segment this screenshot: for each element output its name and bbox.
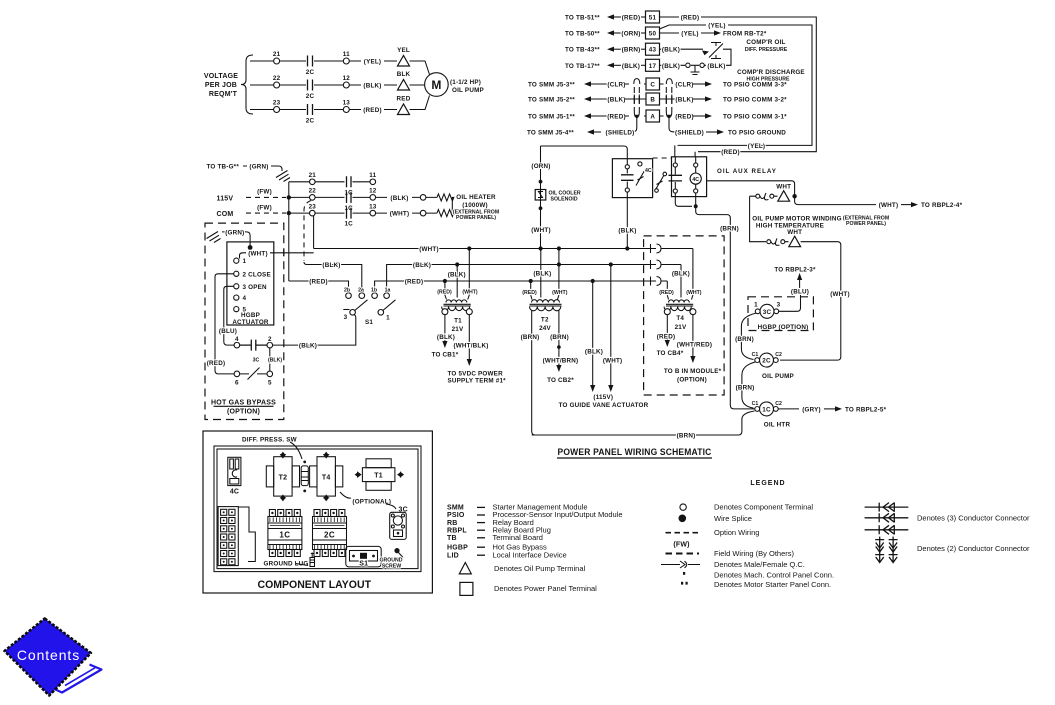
motor M oil pump	[425, 73, 484, 97]
svg-text:C1: C1	[752, 352, 759, 358]
terminal HGBP 2b	[267, 336, 273, 348]
connector: 3 conductor row 1	[865, 503, 909, 512]
node: optional label	[340, 492, 408, 514]
svg-text:(RED): (RED)	[659, 290, 674, 296]
svg-text:22: 22	[309, 188, 317, 195]
svg-text:T4: T4	[676, 315, 684, 322]
decorative contents button	[5, 619, 102, 696]
transformer T1	[442, 300, 473, 333]
terminal HGBP 6	[234, 371, 240, 386]
svg-text:(FW): (FW)	[257, 189, 272, 196]
node: TO TB-50 row	[565, 30, 646, 37]
wire: BLK bus left	[304, 262, 362, 293]
svg-text:(GRN): (GRN)	[225, 229, 244, 236]
wire: top link to relay	[541, 146, 628, 159]
field wiring legend symbol	[666, 542, 795, 558]
node: COM field wiring	[217, 205, 291, 219]
wire: HGBP BLK riser to S1	[273, 315, 356, 346]
option box: HGBP contactor	[0, 0, 1, 1]
svg-text:M: M	[431, 78, 441, 92]
svg-text:(BLK): (BLK)	[448, 271, 466, 278]
svg-text:TO SMM J5-4**: TO SMM J5-4**	[527, 130, 574, 137]
svg-text:(YEL): (YEL)	[681, 31, 698, 38]
oil pump terminal BLK	[397, 71, 411, 90]
svg-text:(BLK): (BLK)	[299, 343, 317, 350]
wire: 2 to 5 (BLK)	[253, 348, 283, 371]
wire: relay box to WHT bus (BLK)	[618, 198, 636, 251]
svg-text:Denotes (3) Conductor Connecto: Denotes (3) Conductor Connector	[917, 513, 1030, 522]
component terminal heater bottom	[420, 210, 426, 216]
svg-text:T4: T4	[322, 475, 331, 482]
wire splice legend symbol	[679, 514, 752, 523]
svg-text:(RED): (RED)	[522, 290, 537, 296]
svg-text:Denotes Mach. Control Panel Co: Denotes Mach. Control Panel Conn.	[714, 570, 834, 579]
svg-text:(SHIELD): (SHIELD)	[606, 130, 635, 137]
contactor 1C layout icon	[268, 510, 302, 557]
svg-text:TO PSIO GROUND: TO PSIO GROUND	[728, 130, 786, 137]
node: schematic title	[557, 447, 712, 458]
svg-text:COMPONENT LAYOUT: COMPONENT LAYOUT	[258, 579, 372, 591]
svg-text:(BLK): (BLK)	[607, 97, 625, 104]
svg-text:(BLK): (BLK)	[413, 262, 431, 269]
svg-text:(115V): (115V)	[593, 394, 613, 401]
solenoid: oil cooler solenoid	[535, 190, 581, 203]
svg-text:C2: C2	[775, 352, 782, 358]
svg-text:(RED): (RED)	[405, 279, 424, 286]
svg-text:22: 22	[273, 75, 281, 82]
svg-text:1C: 1C	[344, 205, 353, 212]
svg-text:2C: 2C	[306, 93, 315, 100]
wire: actuator WHT lead	[240, 249, 314, 258]
svg-text:(RED): (RED)	[681, 15, 700, 22]
svg-text:DIFF. PRESSURE: DIFF. PRESSURE	[745, 47, 788, 53]
svg-text:TO PSIO COMM 3-3*: TO PSIO COMM 3-3*	[723, 82, 787, 89]
wire: WHT bus	[314, 246, 651, 253]
svg-text:VOLTAGE: VOLTAGE	[204, 73, 238, 80]
svg-text:(RED): (RED)	[675, 114, 694, 121]
terminal board layout icon	[218, 507, 255, 566]
svg-text:(YEL): (YEL)	[748, 143, 765, 150]
svg-text:SOLENOID: SOLENOID	[551, 196, 578, 202]
svg-text:PSIO: PSIO	[447, 512, 465, 519]
option box: T4	[644, 236, 725, 395]
svg-text:T1: T1	[374, 473, 383, 480]
node: TO SMM J5-2 row	[528, 96, 646, 103]
svg-text:TO PSIO COMM 3-1*: TO PSIO COMM 3-1*	[723, 114, 787, 121]
svg-text:(BLK): (BLK)	[437, 334, 455, 341]
svg-text:PER JOB: PER JOB	[205, 82, 237, 89]
switch: compressor discharge high pressure	[660, 63, 805, 83]
svg-text:(BLK): (BLK)	[662, 63, 680, 70]
node: legend RBPL	[447, 525, 551, 534]
svg-text:(SHIELD): (SHIELD)	[675, 130, 704, 137]
wire: TO RBPL2-3 arrow	[774, 267, 816, 296]
svg-text:(BRN): (BRN)	[521, 334, 540, 341]
terminal actuator 5	[234, 307, 247, 314]
svg-text:TO 5VDC POWER: TO 5VDC POWER	[448, 370, 504, 377]
svg-text:TO CB2*: TO CB2*	[547, 377, 574, 384]
svg-text:(RED): (RED)	[622, 15, 641, 22]
node: legend RB	[447, 518, 534, 527]
svg-text:1C: 1C	[762, 406, 771, 413]
terminal 13	[343, 107, 349, 113]
svg-text:(BRN): (BRN)	[720, 226, 739, 233]
svg-text:(BLK): (BLK)	[268, 358, 282, 364]
svg-text:POWER PANEL): POWER PANEL)	[456, 215, 496, 221]
relay 4C layout icon	[228, 457, 241, 495]
terminal 12b	[369, 188, 377, 201]
svg-text:OIL PUMP: OIL PUMP	[762, 373, 794, 380]
svg-text:43: 43	[649, 47, 657, 54]
svg-text:2a: 2a	[358, 288, 364, 294]
svg-text:RED: RED	[397, 96, 411, 103]
svg-text:SMM: SMM	[447, 505, 464, 512]
svg-text:A: A	[650, 114, 655, 121]
svg-text:LID: LID	[447, 552, 459, 559]
svg-text:POWER PANEL): POWER PANEL)	[846, 221, 886, 227]
svg-text:YEL: YEL	[397, 47, 410, 54]
wire: RED bus left	[289, 279, 349, 293]
ground symbol TB-G	[276, 171, 290, 182]
svg-text:COM: COM	[217, 211, 234, 218]
svg-text:2C: 2C	[306, 118, 315, 125]
svg-text:DIFF. PRESS. SW: DIFF. PRESS. SW	[242, 437, 297, 444]
svg-text:SCREW: SCREW	[382, 564, 401, 570]
component terminal heater top	[420, 195, 426, 201]
resistor: oil heater element top	[437, 194, 454, 213]
svg-text:2b: 2b	[344, 288, 350, 294]
terminal 22b	[309, 188, 317, 201]
terminal actuator 4	[234, 295, 247, 302]
svg-text:(BLK): (BLK)	[322, 262, 340, 269]
svg-text:11: 11	[343, 51, 350, 58]
node: legend HGBP	[447, 542, 547, 551]
svg-text:RBPL: RBPL	[447, 527, 467, 534]
node: diff press sw label	[242, 437, 302, 460]
svg-text:(1000W): (1000W)	[462, 202, 488, 209]
svg-text:(BRN): (BRN)	[735, 336, 754, 343]
switch S1	[343, 288, 395, 327]
svg-text:(RED): (RED)	[607, 114, 626, 121]
svg-text:TO TB-50**: TO TB-50**	[565, 31, 600, 38]
svg-text:(BLK): (BLK)	[622, 63, 640, 70]
svg-text:(BRN): (BRN)	[736, 384, 755, 391]
terminal 12	[343, 82, 349, 88]
svg-text:(WHT): (WHT)	[248, 250, 268, 257]
svg-text:TO PSIO COMM 3-2*: TO PSIO COMM 3-2*	[723, 97, 787, 104]
switch: compressor oil diff pressure	[709, 39, 788, 65]
svg-text:(BLK): (BLK)	[707, 63, 725, 70]
terminal actuator 1	[234, 258, 247, 265]
svg-text:TO TB-43**: TO TB-43**	[565, 47, 600, 54]
svg-text:12: 12	[343, 75, 351, 82]
power panel terminal A	[646, 110, 660, 122]
terminal HGBP 4	[234, 336, 240, 348]
wire: relay to high temp switch	[707, 181, 795, 196]
svg-text:Wire Splice: Wire Splice	[714, 514, 752, 523]
svg-text:5: 5	[268, 380, 272, 387]
svg-text:23: 23	[273, 100, 281, 107]
contactor coil 1C	[752, 401, 791, 429]
wire: T4 RED to CB4	[657, 315, 684, 357]
terminal actuator 3	[234, 284, 267, 291]
node: voltage per job requirement label	[204, 73, 238, 98]
svg-text:HOT GAS BYPASS: HOT GAS BYPASS	[211, 399, 276, 406]
wire: T1 BLK to CB1	[432, 315, 459, 359]
svg-text:S1: S1	[365, 319, 373, 326]
connector: T4 row2	[651, 260, 682, 269]
svg-text:(OPTION): (OPTION)	[677, 376, 707, 383]
svg-text:(BLK): (BLK)	[390, 195, 408, 202]
ground symbol HGBP	[207, 232, 221, 243]
resistor: oil heater element bottom	[437, 210, 454, 217]
svg-text:Denotes (2) Conductor Connecto: Denotes (2) Conductor Connector	[917, 544, 1030, 553]
oil pump terminal RED	[397, 96, 411, 115]
svg-text:TO CB1*: TO CB1*	[432, 352, 459, 359]
svg-text:HGBP: HGBP	[447, 544, 468, 551]
power panel terminal 17	[646, 59, 660, 71]
wire: BLK bus right	[387, 262, 651, 293]
svg-text:Denotes Component Terminal: Denotes Component Terminal	[714, 503, 813, 512]
svg-text:Local Interface Device: Local Interface Device	[493, 550, 567, 559]
wire: row 22-12 oil heater	[289, 196, 437, 198]
svg-text:50: 50	[649, 31, 657, 38]
terminal actuator 2	[234, 271, 271, 278]
svg-text:TB: TB	[447, 535, 457, 542]
svg-text:(BLK): (BLK)	[672, 270, 690, 277]
svg-text:REQM'T: REQM'T	[209, 91, 238, 98]
node: WHT bus junctions	[467, 246, 561, 250]
svg-text:(WHT): (WHT)	[419, 246, 439, 253]
svg-text:B: B	[650, 97, 655, 104]
wire: guide vane WHT drop	[603, 265, 623, 393]
svg-text:2C: 2C	[762, 358, 771, 365]
connector: 3 conductor row 2	[865, 513, 909, 522]
svg-text:(1-1/2 HP): (1-1/2 HP)	[450, 79, 481, 86]
node: ground screw	[379, 548, 403, 570]
svg-text:TO RBPL2-4*: TO RBPL2-4*	[921, 202, 963, 209]
svg-text:1: 1	[243, 258, 247, 265]
component layout inner panel	[214, 446, 421, 572]
wire: (BLK) to PSIO COMM 3-2	[660, 96, 788, 103]
connector: 3 conductor connector left column	[629, 79, 640, 132]
svg-text:Denotes Motor Starter Panel Co: Denotes Motor Starter Panel Conn.	[714, 580, 831, 589]
svg-text:21V: 21V	[675, 324, 687, 331]
svg-text:(BRN): (BRN)	[677, 433, 696, 440]
svg-text:13: 13	[369, 203, 377, 210]
connector: 3 conductor connector right column	[666, 79, 676, 132]
component layout outer panel	[203, 431, 432, 593]
svg-text:2 CLOSE: 2 CLOSE	[243, 271, 271, 278]
svg-text:(BRN): (BRN)	[550, 334, 569, 341]
device: HGBP actuator box	[0, 0, 1, 1]
terminal 11b	[369, 172, 376, 185]
svg-text:(OPTION): (OPTION)	[227, 409, 260, 416]
wire: T1 WHT/BLK to 5VDC	[448, 315, 507, 385]
power panel terminal 50	[646, 27, 660, 39]
svg-text:12: 12	[369, 188, 377, 195]
svg-text:Denotes Male/Female Q.C.: Denotes Male/Female Q.C.	[714, 560, 805, 569]
oil pump terminal YEL	[397, 47, 410, 66]
node: TO TB-51 row	[565, 14, 646, 21]
connector: 3 conductor row 3	[865, 525, 909, 534]
node: TO TB-17 row	[565, 63, 646, 70]
svg-text:Terminal Board: Terminal Board	[493, 533, 543, 542]
wire: BRN 2C to 1C	[736, 362, 756, 408]
svg-text:(RED): (RED)	[207, 360, 226, 367]
contactor contact 1C row21	[344, 176, 353, 196]
wire: feeder vertical	[288, 182, 290, 281]
node: HGBP actuator label	[227, 242, 274, 326]
component terminal legend symbol	[680, 503, 814, 512]
svg-text:Field Wiring (By Others): Field Wiring (By Others)	[714, 549, 795, 558]
svg-text:1C: 1C	[344, 190, 353, 197]
svg-text:TO SMM J5-3**: TO SMM J5-3**	[528, 82, 575, 89]
svg-text:(OPTIONAL): (OPTIONAL)	[352, 499, 391, 506]
node: TO SMM J5-4 shield row	[527, 129, 634, 136]
wire: (YEL) from 50 to RB-T2	[660, 30, 767, 37]
switch: oil pump motor winding high temp 1	[750, 184, 797, 202]
transformer T1 primary leads	[437, 249, 478, 300]
terminal 23b	[309, 203, 317, 216]
wire: supply brace	[241, 55, 253, 114]
svg-text:HGBP (OPTION): HGBP (OPTION)	[758, 324, 809, 331]
contactor contact 1C row23	[344, 208, 353, 228]
svg-text:(BLU): (BLU)	[219, 328, 237, 335]
svg-text:SUPPLY TERM #1*: SUPPLY TERM #1*	[448, 378, 507, 385]
wire: option drop from 22	[304, 201, 311, 262]
node: oil heater label	[453, 194, 499, 221]
transformer T1 layout icon	[355, 459, 405, 491]
svg-text:OIL AUX RELAY: OIL AUX RELAY	[717, 168, 777, 175]
contactor coil 3C	[748, 297, 813, 331]
wire: T2 secondary left BRN	[521, 310, 540, 435]
node: guide vane actuator label	[559, 394, 649, 409]
svg-text:(WHT): (WHT)	[531, 227, 551, 234]
svg-text:(RED): (RED)	[657, 333, 676, 340]
wire: (BLK) from 43 to diff pressure switch	[660, 47, 710, 56]
wire: actuator 3 to contact 4 (BLU)	[219, 286, 237, 345]
svg-text:(WHT): (WHT)	[462, 289, 478, 295]
option box: hot gas bypass	[205, 223, 284, 419]
contactor 2C layout icon	[313, 510, 347, 557]
svg-text:Contents: Contents	[17, 647, 80, 663]
svg-text:(ORN): (ORN)	[621, 31, 640, 38]
wire: phase 1 row	[250, 61, 430, 75]
power panel terminal B	[646, 93, 660, 105]
wire: (CLR) to PSIO COMM 3-3	[660, 81, 788, 88]
svg-text:RB: RB	[447, 520, 458, 527]
svg-text:3 OPEN: 3 OPEN	[243, 284, 268, 291]
svg-text:1a: 1a	[385, 288, 391, 294]
wire: relay bottom to BRN riser	[675, 197, 739, 405]
contactor contact 2C phase3	[306, 104, 315, 125]
svg-text:3C: 3C	[253, 358, 260, 364]
svg-text:OIL HTR: OIL HTR	[764, 421, 791, 428]
svg-text:11: 11	[369, 172, 376, 179]
wire: 3C to BLU riser	[779, 295, 801, 311]
svg-text:C2: C2	[775, 401, 782, 407]
svg-text:TO TB-G**: TO TB-G**	[207, 164, 240, 171]
node: high temperature label	[752, 216, 889, 230]
contactor contact 1C row22	[344, 192, 353, 212]
svg-text:(WHT): (WHT)	[830, 291, 850, 298]
svg-text:S1: S1	[359, 561, 368, 568]
option wiring legend symbol	[666, 528, 760, 537]
svg-text:TO RBPL2-3*: TO RBPL2-3*	[774, 267, 816, 274]
wire: BRN bottom run	[532, 411, 755, 440]
svg-text:POWER PANEL WIRING SCHEMATIC: POWER PANEL WIRING SCHEMATIC	[558, 447, 712, 457]
wire: 1C GRY to RBPL2-5	[778, 406, 886, 413]
wire: (RED) to PSIO COMM 3-1	[660, 113, 788, 120]
wire: T4 WHT/RED to B module	[664, 315, 722, 384]
power panel terminal 51	[646, 11, 660, 23]
contact 3C b (6-5)	[240, 368, 267, 380]
svg-text:(WHT/RED): (WHT/RED)	[677, 341, 712, 348]
svg-text:2C: 2C	[306, 69, 315, 76]
svg-text:(GRN): (GRN)	[249, 164, 268, 171]
svg-text:1b: 1b	[371, 288, 377, 294]
connector: 2 conductor column 1	[875, 537, 884, 563]
contactor coil 2C	[752, 352, 794, 380]
transformer T4	[664, 300, 696, 331]
svg-text:21V: 21V	[452, 326, 464, 333]
relay: oil aux relay box	[655, 145, 707, 196]
wire: shield to PSIO ground	[675, 129, 786, 136]
svg-text:17: 17	[649, 63, 657, 70]
wire: T2 secondary right to CB2	[543, 310, 579, 384]
svg-text:(RED): (RED)	[721, 149, 740, 156]
wire: option link between relay boxes	[653, 157, 672, 159]
mach control panel conn legend symbol	[683, 570, 834, 579]
svg-text:(BLU): (BLU)	[791, 289, 809, 296]
svg-text:TO RBPL2-5*: TO RBPL2-5*	[845, 406, 887, 413]
svg-text:COMP'R OIL: COMP'R OIL	[746, 39, 785, 46]
transformer T2 layout icon	[266, 452, 299, 502]
svg-text:OIL PUMP MOTOR WINDING: OIL PUMP MOTOR WINDING	[752, 216, 841, 223]
node: TO TB-G ground wire	[207, 164, 283, 172]
transformer T4 layout icon	[310, 452, 343, 502]
wire: (YEL) from 50 to right bracket	[660, 23, 813, 151]
node: ground lug	[264, 553, 315, 568]
node: legend LID	[447, 550, 567, 559]
svg-text:(CLR): (CLR)	[607, 82, 625, 89]
svg-text:(WHT): (WHT)	[879, 202, 899, 209]
svg-text:TO CB4*: TO CB4*	[657, 350, 684, 357]
power panel terminal C	[646, 78, 660, 90]
svg-text:1: 1	[754, 301, 758, 308]
power panel terminal 43	[646, 43, 660, 55]
svg-text:LEGEND: LEGEND	[750, 480, 785, 487]
svg-text:HGBP: HGBP	[241, 312, 260, 319]
svg-text:(RED): (RED)	[363, 107, 382, 114]
node: TO SMM J5-1 row	[528, 113, 646, 120]
switch S1 layout icon	[346, 546, 381, 567]
power panel terminal legend symbol	[460, 582, 597, 595]
terminal 21	[274, 58, 280, 64]
svg-text:Option Wiring: Option Wiring	[714, 528, 759, 537]
svg-text:4: 4	[243, 295, 247, 302]
svg-text:WHT: WHT	[776, 184, 791, 191]
node: TO TB-43 row	[565, 47, 646, 54]
contactor 3C layout icon	[390, 512, 407, 539]
svg-text:TO B IN MODULE*: TO B IN MODULE*	[664, 368, 722, 375]
svg-text:(BLK): (BLK)	[618, 228, 636, 235]
svg-text:T1: T1	[454, 318, 462, 325]
svg-text:(ORN): (ORN)	[531, 163, 550, 170]
terminal 21b	[309, 172, 317, 185]
svg-text:(BLK): (BLK)	[533, 270, 551, 277]
